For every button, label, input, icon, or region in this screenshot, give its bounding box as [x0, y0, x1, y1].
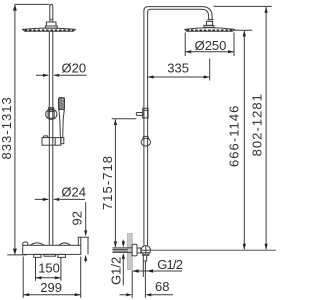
dimension 68 extension lines [132, 262, 145, 298]
right view: arm and riser outer line [144, 7, 212, 246]
left view: rod nut [46, 22, 56, 26]
right view: shower head (edge view) [185, 28, 235, 32]
svg-text:715-718: 715-718 [100, 155, 115, 210]
dimension Ø250 extension lines [185, 33, 234, 57]
svg-text:Ø250: Ø250 [195, 38, 227, 53]
right view: arm flange [204, 25, 214, 27]
right view: arm nut [208, 19, 214, 21]
svg-text:Ø20: Ø20 [62, 61, 87, 76]
dimension 715-718 top extension line [112, 118, 137, 120]
right view: valve connector [137, 248, 141, 253]
right view: outlet stub [143, 255, 147, 277]
dimension 666-1146 vertical line and arrows [243, 31, 245, 250]
dimension 833-1313 top extension line [14, 3, 49, 5]
right view: inlet pipe [113, 248, 133, 253]
left view: mixer outlet upturn [78, 237, 89, 254]
left view: lower holder knob [43, 136, 48, 138]
dimension 150 extension lines [36, 258, 61, 281]
dimension 335 line and arrows [148, 76, 210, 78]
right view: riser coupling [143, 108, 148, 118]
dimension Ø20 left arrow [36, 74, 48, 76]
dimension Ø24 left arrow [35, 198, 48, 200]
right view: holder ring (side) [141, 138, 150, 146]
dimension 666-1146 top extension line [234, 29, 253, 31]
left view: rod flange [45, 26, 57, 28]
dimension 802-1281 top extension line [214, 5, 272, 7]
left view: mixer dome right [59, 243, 71, 245]
svg-text:68: 68 [155, 279, 169, 294]
svg-text:G1/2: G1/2 [157, 257, 183, 272]
dimension Ø250 line and arrows [185, 51, 234, 53]
svg-text:833-1313: 833-1313 [0, 96, 14, 159]
dimension 68 line and arrows [120, 294, 174, 296]
label G1/2 leader arrow at wall [133, 269, 139, 272]
dimension 92 lower arrow [84, 255, 87, 261]
left view: disc nozzle dashes [25, 29, 74, 31]
dimension 833-1313 vertical line [14, 5, 16, 254]
dimension 299 extension lines [23, 257, 80, 298]
right view: holder cone [143, 136, 149, 138]
left view: riser pole [49, 31, 53, 245]
svg-text:Ø24: Ø24 [61, 184, 86, 199]
dimension 335 right extension line [209, 59, 211, 81]
left view: slider ring [46, 109, 57, 119]
right view: outlet nut [141, 253, 150, 256]
dimension G1/2 inlet arrows [122, 240, 124, 242]
left view: lower holder right wing [61, 138, 64, 144]
right view: wall plate [128, 234, 133, 270]
svg-text:335: 335 [167, 60, 189, 75]
right view: valve cross ticks [142, 246, 150, 254]
dimension 833-1313 top arrow [13, 5, 17, 11]
left view: rod band [50, 19, 53, 21]
dimension 150 line and arrows [36, 277, 61, 279]
right view: holder knob [136, 113, 142, 116]
dimension 802-1281 vertical line and arrows [265, 7, 267, 249]
label G1/2 leader arrow at outlet [147, 269, 153, 272]
dimension Ø24 right arrow [53, 198, 59, 201]
dimension Ø20 right arrow [53, 74, 59, 77]
left view: slider ring knob [49, 108, 54, 110]
svg-text:92: 92 [70, 211, 85, 225]
left view: mixer bar left nub [23, 242, 28, 245]
svg-text:666-1146: 666-1146 [227, 105, 242, 167]
label G1/2 leader line [133, 270, 183, 272]
dimension 299 line and arrows [23, 294, 80, 296]
svg-text:G1/2: G1/2 [108, 257, 123, 285]
left view: under-bar center plate [44, 254, 56, 256]
left view: top rod [50, 4, 53, 22]
left view: mixer dome left [30, 243, 44, 245]
left view: mixer bar body [23, 245, 81, 254]
left view: hand shower handle taper [59, 110, 65, 138]
right view: valve body circle [141, 246, 150, 255]
right view: valve flange [132, 244, 137, 256]
right view: head nozzle dashes [187, 29, 233, 31]
left view: hand shower grip (hatched) [59, 98, 65, 110]
dimension 715-718 vertical line and arrows [114, 119, 116, 246]
left view: lower holder bracket [42, 138, 61, 146]
left view: under-bar tab left [34, 254, 41, 257]
dimension 833-1313 bottom arrow [13, 249, 17, 255]
right view: outlet centerline [141, 249, 276, 251]
dimension 92 upper arrow [85, 202, 87, 230]
svg-text:802-1281: 802-1281 [250, 93, 265, 156]
right view: arm and riser inner line [148, 9, 209, 246]
dimension 833-1313 bottom extension line [7, 254, 27, 256]
left view: slider bracket [48, 110, 54, 118]
left view: under-bar tab right [58, 254, 66, 257]
svg-text:299: 299 [40, 280, 62, 295]
left view: overhead shower disc (edge view) [23, 28, 76, 31]
svg-text:150: 150 [38, 260, 60, 275]
